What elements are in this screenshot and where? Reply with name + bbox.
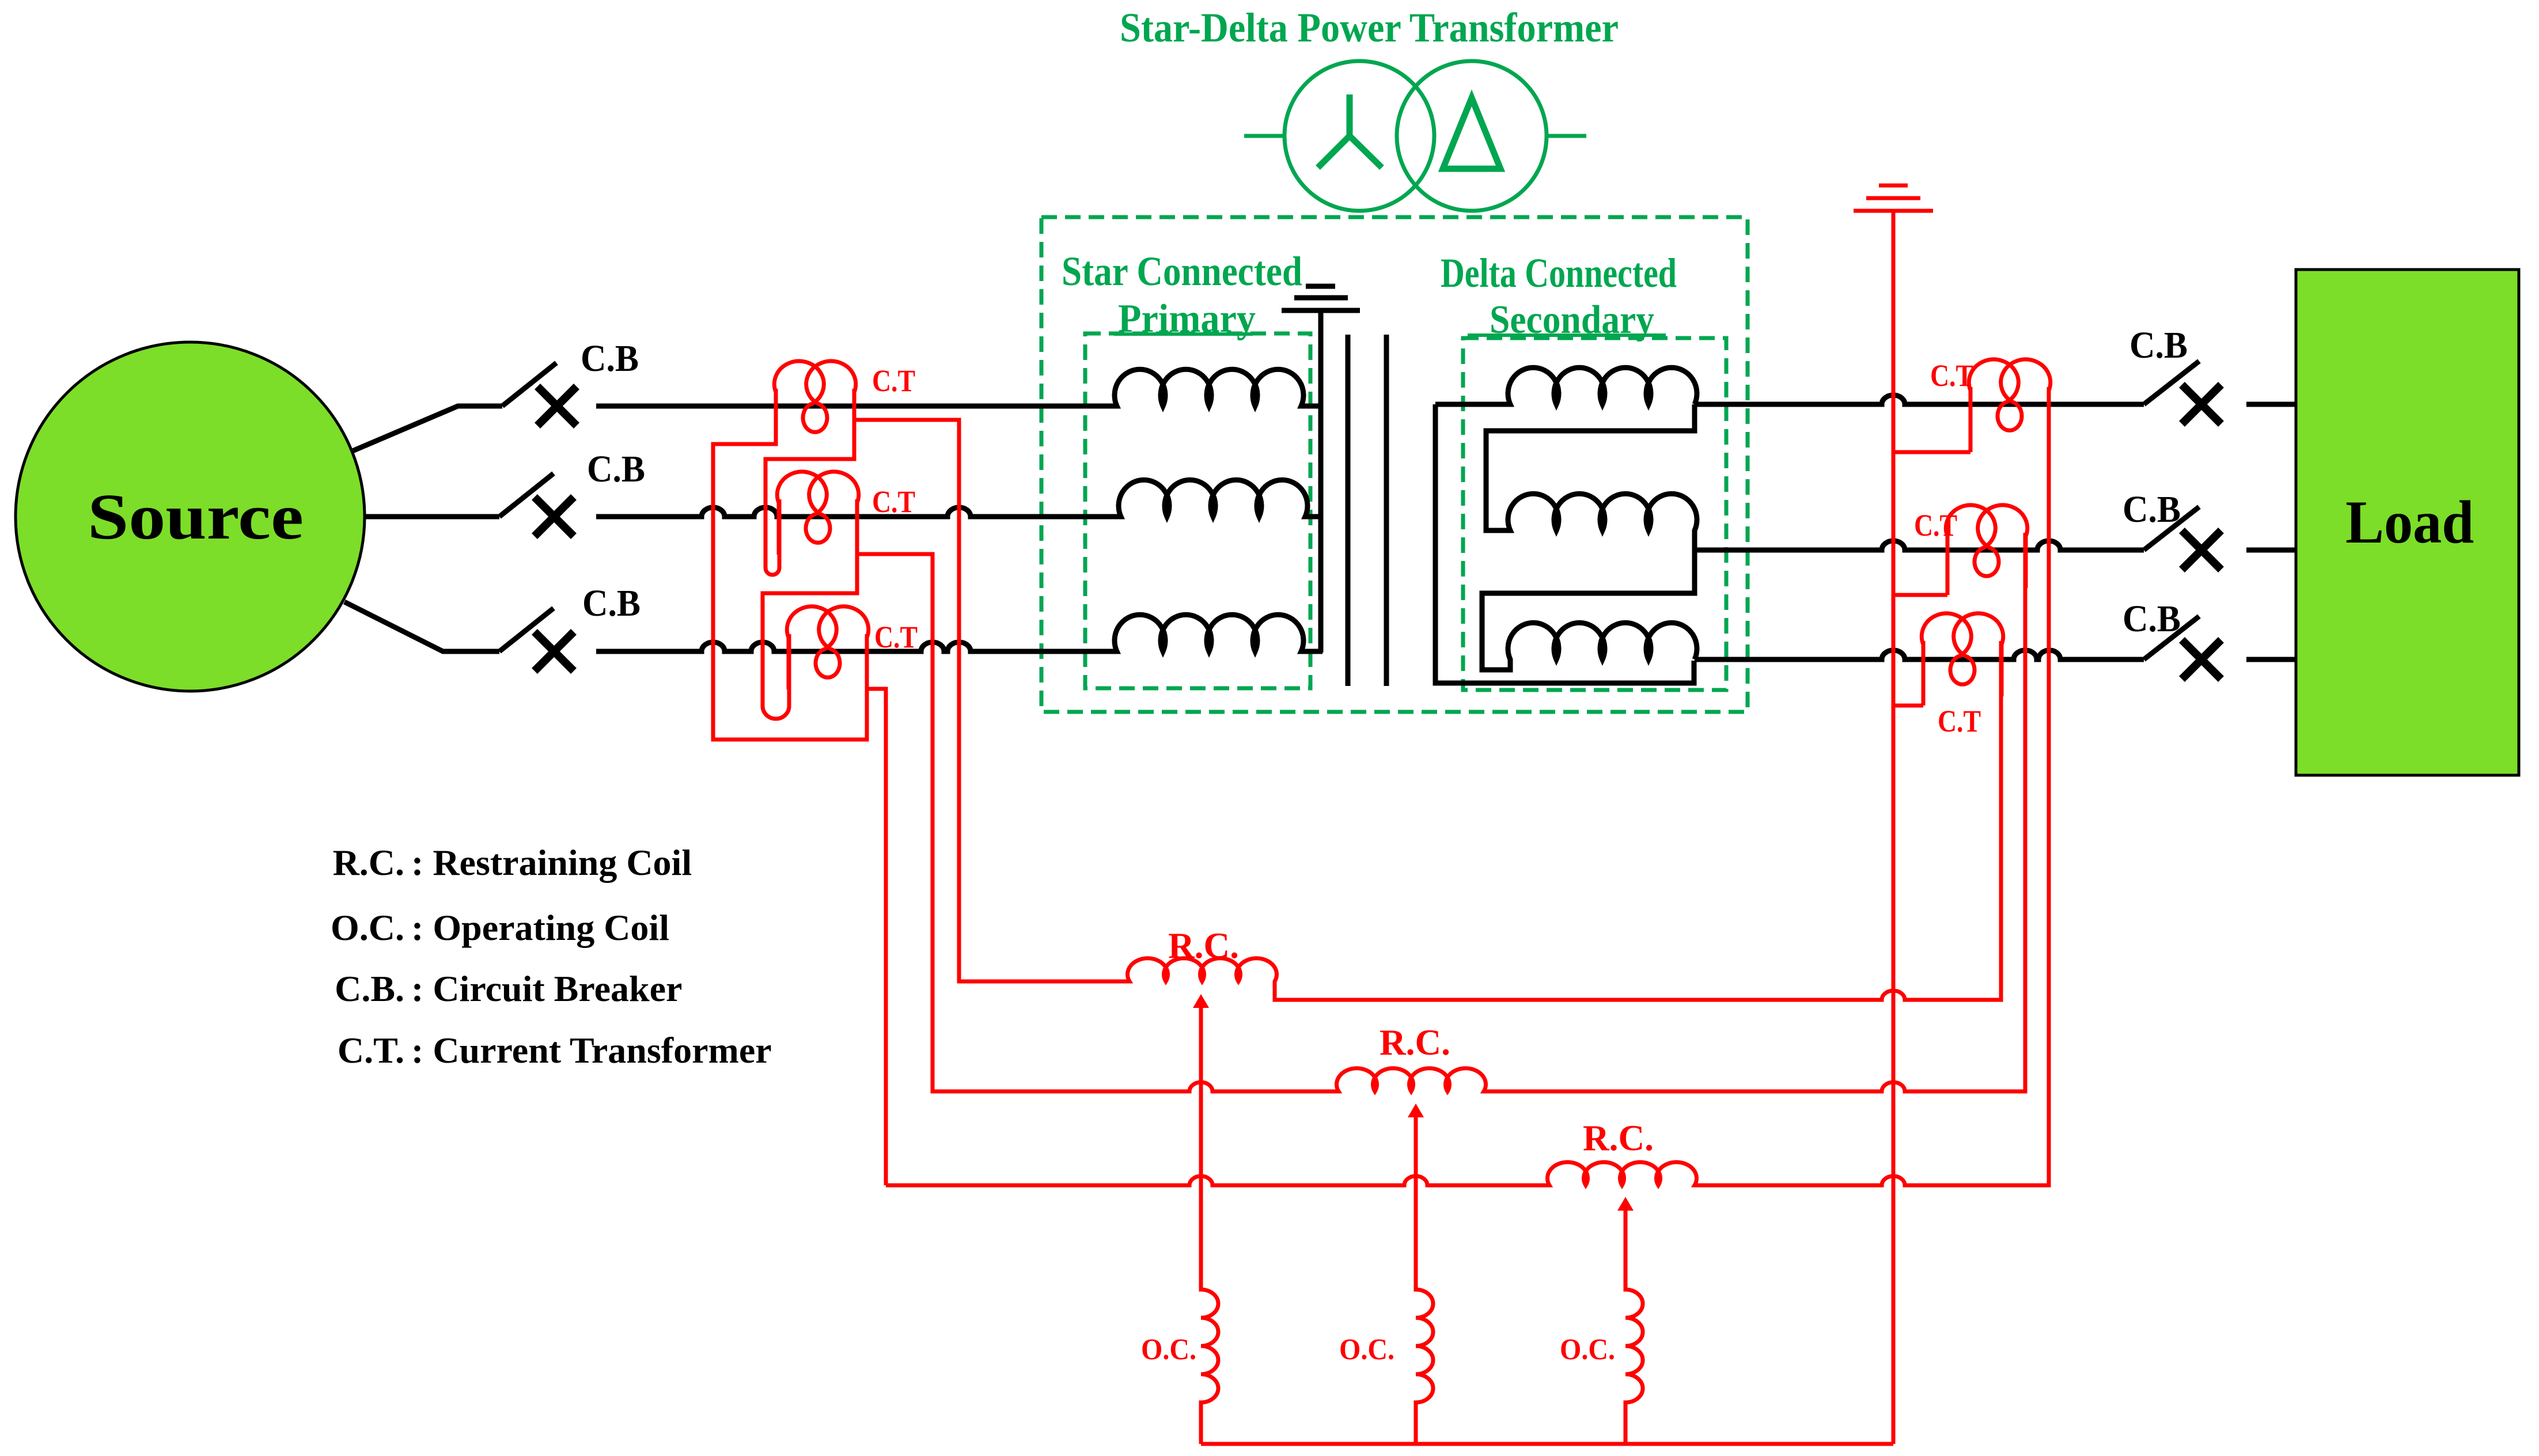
svg-text:O.C.: O.C. [1141,1333,1196,1366]
svg-text:C.T: C.T [1914,508,1957,543]
svg-text:: Circuit Breaker: : Circuit Breaker [411,968,682,1009]
svg-text:R.C.: R.C. [333,842,404,883]
svg-text:C.B: C.B [2123,598,2181,640]
svg-text:R.C.: R.C. [1380,1022,1450,1063]
svg-text:O.C.: O.C. [331,907,404,948]
svg-text:C.T: C.T [872,484,915,519]
svg-text:: Current Transformer: : Current Transformer [411,1030,772,1071]
svg-text:C.T: C.T [1938,704,1981,738]
svg-text:Star-Delta Power Transformer: Star-Delta Power Transformer [1120,5,1619,51]
svg-text:Delta Connected: Delta Connected [1441,250,1677,296]
svg-text:Load: Load [2345,488,2474,556]
svg-text:C.T: C.T [872,363,915,398]
svg-text:O.C.: O.C. [1339,1333,1394,1366]
svg-text:Star Connected: Star Connected [1062,248,1302,294]
svg-text:C.B: C.B [581,338,639,380]
svg-text:C.B.: C.B. [335,968,404,1009]
svg-text:C.B: C.B [2123,488,2181,530]
svg-text:R.C.: R.C. [1583,1117,1654,1158]
svg-text:C.T.: C.T. [338,1030,404,1071]
svg-text:C.B: C.B [2129,324,2188,366]
svg-text:C.T: C.T [874,620,918,654]
svg-text:: Restraining Coil: : Restraining Coil [411,842,692,883]
svg-text:C.B: C.B [582,582,641,624]
svg-text:C.T: C.T [1930,358,1973,393]
svg-text:Source: Source [88,481,304,553]
svg-text:: Operating Coil: : Operating Coil [411,907,669,948]
svg-text:O.C.: O.C. [1560,1333,1615,1366]
svg-text:R.C.: R.C. [1168,925,1239,966]
svg-text:C.B: C.B [587,448,645,490]
